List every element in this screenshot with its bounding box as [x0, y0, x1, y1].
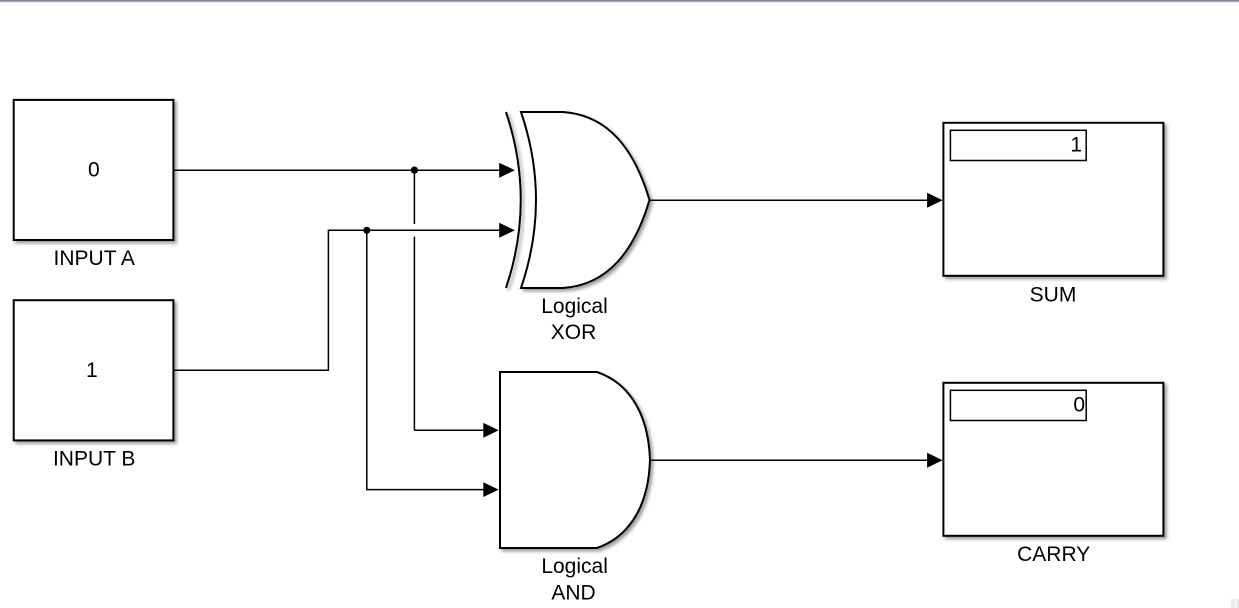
label Logical XOR	[541, 295, 608, 344]
svg-text:Logical: Logical	[541, 295, 608, 318]
wire A branch down to AND input 1 (gap at crossing)	[414, 170, 485, 430]
wire XOR output to SUM	[650, 199, 929, 201]
wire B: INPUT B output up to XOR input 2	[173, 230, 500, 370]
svg-text:0: 0	[1073, 394, 1085, 417]
wire B branch down to AND input 2	[367, 230, 485, 489]
svg-text:1: 1	[86, 359, 98, 382]
svg-text:0: 0	[88, 158, 100, 181]
XOR input arc	[506, 112, 521, 288]
resize grip bottom-right	[1231, 599, 1239, 608]
arrowhead into XOR input 2	[499, 223, 515, 238]
arrowhead into AND input 2	[483, 482, 498, 497]
svg-text:AND: AND	[551, 582, 595, 605]
display block CARRY	[943, 383, 1163, 536]
junction node B	[363, 227, 370, 234]
arrowhead into XOR input 1	[499, 163, 515, 178]
svg-text:INPUT A: INPUT A	[54, 247, 135, 270]
wire AND output to CARRY	[650, 459, 928, 461]
svg-text:Logical: Logical	[541, 555, 608, 578]
junction node A	[411, 167, 418, 174]
constant block INPUT B	[14, 300, 174, 440]
arrowhead into SUM	[927, 193, 943, 208]
constant block INPUT A	[14, 100, 174, 240]
svg-text:1: 1	[1070, 134, 1082, 157]
display block SUM	[943, 123, 1163, 276]
svg-text:SUM: SUM	[1030, 284, 1077, 307]
label Logical AND	[541, 555, 608, 605]
arrowhead into CARRY	[927, 453, 943, 468]
arrowhead into AND input 1	[483, 423, 498, 438]
AND gate body U2	[500, 372, 650, 548]
svg-text:INPUT B: INPUT B	[53, 447, 135, 470]
top window edge	[0, 0, 1239, 3]
wire A: INPUT A output to XOR input 1	[173, 169, 500, 171]
XOR gate body U1	[521, 112, 650, 288]
svg-text:XOR: XOR	[551, 321, 597, 344]
svg-text:CARRY: CARRY	[1017, 543, 1090, 566]
